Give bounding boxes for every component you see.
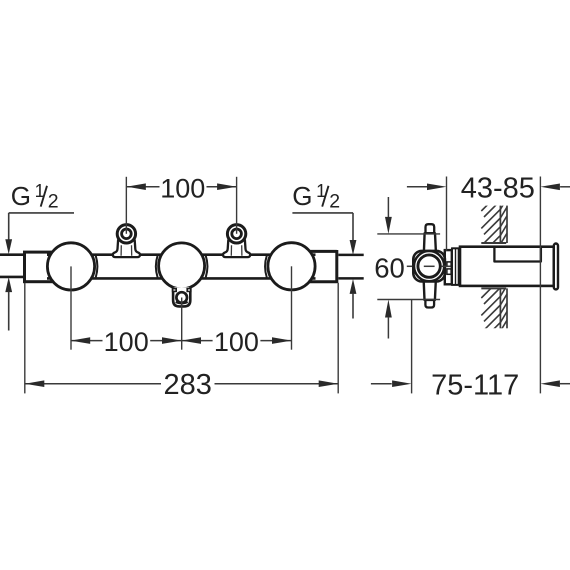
svg-text:60: 60 <box>374 252 405 283</box>
svg-text:100: 100 <box>104 327 149 357</box>
svg-text:283: 283 <box>164 369 212 401</box>
svg-text:75-117: 75-117 <box>431 369 519 401</box>
svg-text:100: 100 <box>160 173 205 203</box>
svg-text:2: 2 <box>329 191 340 213</box>
svg-text:43-85: 43-85 <box>461 172 535 204</box>
svg-text:2: 2 <box>48 191 59 213</box>
svg-text:100: 100 <box>214 327 259 357</box>
svg-text:G: G <box>11 181 31 211</box>
svg-text:G: G <box>292 181 312 211</box>
